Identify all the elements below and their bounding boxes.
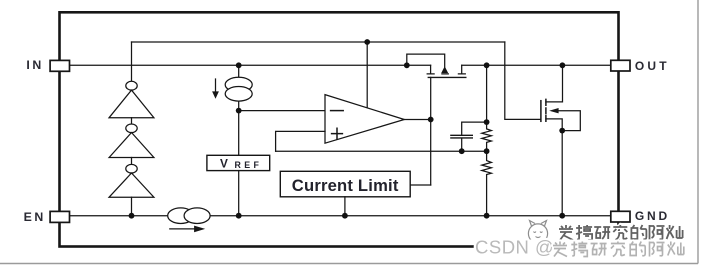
- vref box VREF: [207, 155, 270, 170]
- wire riser from top rail to inverter chain: [131, 42, 133, 81]
- resistor R2: [482, 151, 492, 216]
- transistor Q1 bulk tie: [407, 54, 445, 67]
- inverter chain bubble 1: [126, 81, 137, 90]
- IC boundary box: [60, 12, 619, 246]
- inverter chain triangle 1: [109, 90, 154, 118]
- wire VREF node to op-amp inverting input: [239, 110, 325, 112]
- resistor R1: [482, 122, 492, 151]
- inverter chain bubble 2: [126, 124, 137, 133]
- wire between inverters 2-3: [131, 158, 133, 165]
- transistor Q1 gate plate: [428, 76, 466, 78]
- wire current limit bottom lead: [344, 197, 346, 216]
- current source I2 ellipses: [168, 208, 194, 224]
- wire IN line: [70, 64, 431, 66]
- wire feedback line: [276, 150, 487, 152]
- wire OUT to divider top: [486, 65, 488, 122]
- wire Q2 drain to OUT: [546, 65, 563, 102]
- inverter chain bubble 3: [126, 164, 137, 173]
- svg-text:V: V: [220, 157, 228, 171]
- transistor Q1 drain stub: [458, 65, 465, 74]
- current source I1 ellipses: [225, 77, 252, 92]
- wire Q2 bulk loop: [559, 111, 581, 131]
- wire op-amp supply drop: [366, 42, 368, 107]
- wire VREF bottom lead: [238, 171, 240, 216]
- wire top rail: [132, 41, 505, 43]
- op-amp plus sign: [332, 128, 343, 139]
- node dots: [129, 39, 566, 219]
- pin box OUT: [611, 60, 630, 71]
- wire top rail to pass-FET gate: [505, 42, 540, 119]
- capacitor C1 plates: [451, 135, 472, 138]
- transistor Q1 source stub: [427, 65, 434, 74]
- wire inverter chain to EN rail: [131, 197, 133, 216]
- wire current limit right lead: [410, 184, 431, 186]
- svg-text:IN: IN: [26, 58, 44, 72]
- arrow down beside I1: [215, 79, 217, 92]
- wire Q2 source to GND rail: [546, 119, 562, 216]
- watermark logo doodle: [528, 224, 547, 243]
- watermark dark text 爱搞研究的阿灿: [559, 225, 683, 240]
- transistor Q2 contact bars: [545, 99, 547, 121]
- op-amp U1: [325, 95, 404, 144]
- wire op-amp output: [404, 119, 430, 121]
- inverter chain triangle 2: [109, 133, 154, 158]
- svg-text:CSDN @: CSDN @: [475, 237, 554, 258]
- pin box EN: [50, 211, 69, 222]
- svg-text:GND: GND: [635, 209, 670, 223]
- wire OUT line: [462, 64, 611, 66]
- wire between inverters 1-2: [131, 118, 133, 124]
- svg-text:OUT: OUT: [635, 59, 670, 73]
- current source I1 leads: [238, 65, 240, 155]
- svg-text:Current Limit: Current Limit: [292, 176, 399, 195]
- wire op-amp non-inverting input to feedback: [276, 131, 325, 151]
- inverter chain triangle 3: [109, 173, 154, 197]
- pin box GND: [611, 211, 630, 222]
- transistor Q1 bulk stub: [442, 73, 448, 75]
- arrow right under I2: [170, 228, 195, 230]
- transistor Q2 gate plate: [540, 101, 542, 122]
- transistor Q2 bulk arrow: [549, 108, 558, 113]
- wire EN rail: [70, 215, 611, 217]
- wire Q1 gate to op-amp output and current limit: [430, 77, 432, 185]
- transistor Q1 bulk arrow: [441, 66, 448, 73]
- pin box IN: [50, 60, 69, 71]
- svg-text:EN: EN: [24, 210, 46, 224]
- watermark light text CSDN @爱搞研究的阿灿: [474, 240, 688, 260]
- wire capacitor C1 bottom lead: [461, 139, 463, 152]
- wire capacitor C1 top branch: [462, 122, 487, 135]
- current limit box: [280, 171, 410, 197]
- op-amp minus sign: [331, 110, 344, 112]
- svg-text:REF: REF: [235, 160, 263, 170]
